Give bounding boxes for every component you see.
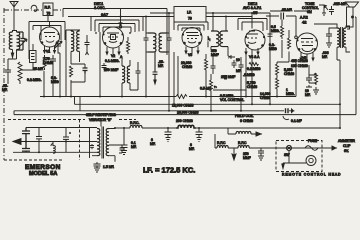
arrow A down: [232, 148, 236, 160]
RFC choke B: [130, 125, 142, 128]
arrow label curve: [283, 116, 289, 120]
svg-text:MF.: MF.: [189, 147, 195, 151]
capacitor filter b: [165, 128, 172, 142]
wire speaker bottom: [347, 27, 350, 29]
antenna coil primary: [9, 32, 12, 50]
svg-text:85: 85: [253, 10, 258, 15]
transformer input taps: [90, 128, 93, 159]
wire grids above V4: [238, 13, 267, 31]
tube V2 internals: [107, 33, 119, 42]
battery lead arrow: [13, 139, 22, 145]
wire field coil: [228, 133, 255, 135]
tube V5 pins: [301, 53, 313, 62]
wire speaker right: [355, 17, 356, 95]
wire OT down: [337, 60, 340, 128]
tube V1 pins: [45, 46, 55, 53]
svg-text:EMERSON: EMERSON: [25, 164, 61, 171]
capacitor 250 MMF fil: [258, 148, 264, 160]
wire V3 pin drops: [174, 52, 178, 104]
switch SW: [286, 145, 291, 150]
wire right bus vertical: [345, 95, 356, 115]
IF transformer 2 left winding: [211, 31, 219, 47]
bias box resistor: [30, 51, 37, 63]
hash choke coil: [51, 142, 55, 154]
speaker body: [347, 7, 354, 27]
wire power row2 y141.5: [13, 141, 92, 143]
wire osc coil leads: [122, 56, 138, 96]
svg-text:6 OHMS: 6 OHMS: [240, 119, 254, 123]
capacitor 0.5-MF coupling: [232, 60, 237, 68]
wire bus y11 right: [270, 10, 307, 12]
svg-text:MF.: MF.: [150, 142, 156, 146]
tube V1 internals: [44, 33, 55, 43]
tube electrode dots: [39, 33, 317, 51]
wire RF box lead: [48, 16, 50, 28]
svg-text:I.F. = 172.5 KC.: I.F. = 172.5 KC.: [143, 166, 195, 175]
capacitor .25-MF: [153, 52, 158, 80]
resistor divider 5,350 + 1 MEG chain: [276, 62, 279, 97]
tube V3 pin arrows: [185, 51, 199, 54]
arrow remote down: [282, 164, 284, 169]
svg-text:& OSC.: & OSC.: [94, 6, 106, 10]
wire filament line y148: [215, 147, 331, 149]
resistor divider 435 OHMS: [277, 30, 291, 62]
svg-text:0.1-MEG.: 0.1-MEG.: [105, 59, 120, 63]
svg-text:250 MMF: 250 MMF: [221, 75, 235, 79]
svg-text:REMOTE CONTROL HEAD: REMOTE CONTROL HEAD: [282, 173, 341, 177]
tube V2 grid cap lead: [120, 9, 122, 23]
wire bus y17: [68, 16, 252, 18]
svg-text:MEG: MEG: [269, 47, 277, 51]
svg-text:0.2-MEG: 0.2-MEG: [247, 67, 261, 71]
wire coupling y16: [266, 15, 296, 17]
svg-text:1.5 MF.: 1.5 MF.: [103, 165, 114, 169]
wire bus y96: [40, 96, 296, 98]
svg-text:6M: 6M: [307, 10, 312, 14]
capacitor .015 MF: [329, 6, 334, 15]
border bottom dashed: [4, 159, 62, 161]
switch SW cross: [287, 146, 291, 150]
wire grid rects above V2: [91, 17, 143, 28]
capacitor filter c: [196, 128, 203, 142]
RF label box: [43, 3, 53, 16]
label I.F. box: [174, 7, 206, 23]
tube V4 pins: [246, 48, 258, 55]
resistor 0.5-MEG grid: [281, 20, 284, 59]
trimmer cap antenna: [17, 32, 26, 50]
svg-text:V5: V5: [302, 56, 306, 60]
capacitor IFT2 primary: [208, 36, 210, 47]
ground .006: [326, 40, 332, 47]
wire B+ line y128: [142, 127, 340, 129]
svg-text:AMMETER: AMMETER: [338, 139, 356, 143]
capacitor vibrator buffer: [119, 145, 125, 153]
arrow field coil: [255, 132, 262, 136]
resistor V2 screen: [127, 37, 130, 54]
svg-text:MMF: MMF: [243, 156, 251, 160]
V5 cathode bias resistor: [315, 73, 318, 84]
capacitor osc grid: [85, 40, 90, 47]
oscillator coil right: [127, 66, 130, 83]
svg-text:V1: V1: [46, 50, 50, 54]
tube V3 IF 78: [182, 28, 202, 48]
resistor 20,000 OHMS: [205, 54, 208, 96]
IF transformer 2 right winding: [220, 31, 228, 47]
tube V2 pins: [107, 47, 119, 55]
capacitor bank 1 lower: [22, 142, 30, 153]
IF transformer 1 right winding: [159, 33, 167, 52]
svg-text:I.F.: I.F.: [187, 11, 192, 15]
wire IFT2 leads: [211, 13, 228, 56]
svg-text:78: 78: [47, 12, 51, 16]
capacitor 0.1-MF series: [286, 108, 289, 113]
antenna coil secondary: [17, 32, 20, 50]
ground bias: [313, 87, 319, 94]
V5 grid cap: [295, 36, 298, 39]
svg-text:MF.: MF.: [158, 64, 164, 68]
svg-text:0.5-MF.: 0.5-MF.: [200, 87, 211, 91]
vibrator transformer left winding: [97, 129, 100, 156]
wire V1 grid rect inner: [33, 26, 61, 41]
wire outer grid box: [63, 9, 167, 56]
variable capacitor tuning: [54, 40, 62, 50]
border left dash-dot: [3, 8, 5, 160]
tone control pot: [319, 5, 328, 15]
wire vertical x66: [66, 30, 80, 97]
svg-text:OHMS: OHMS: [43, 61, 54, 65]
antenna: [10, 2, 18, 31]
svg-text:R.F.: R.F.: [45, 6, 51, 10]
tube V5 42: [297, 33, 318, 54]
arrow 0.1-MF out: [289, 109, 294, 113]
resistor osc grid leak: [70, 66, 73, 97]
wire V5 grid lead: [295, 16, 297, 36]
svg-text:R.F.C.: R.F.C.: [130, 121, 139, 125]
resistor 0.2-MEG avc: [249, 63, 259, 66]
svg-text:V2: V2: [111, 54, 115, 58]
wire AF line y90: [213, 90, 246, 97]
V5 cathode bias cap: [306, 75, 312, 83]
capacitor .05-MF: [5, 66, 11, 84]
svg-text:FUSE: FUSE: [308, 139, 318, 143]
capacitor 10 MF left: [239, 62, 244, 71]
svg-text:MMF: MMF: [211, 53, 219, 57]
wire power row3 y152.3: [13, 151, 92, 153]
svg-text:R.F.C: R.F.C: [238, 141, 247, 145]
capacitor 250 MMF det: [211, 56, 216, 74]
capacitor filter a: [121, 128, 128, 155]
svg-text:MEG.: MEG.: [271, 29, 280, 33]
svg-text:250 MMF: 250 MMF: [104, 68, 118, 72]
svg-text:.015-: .015-: [333, 2, 341, 6]
wire bus y104.5: [75, 97, 341, 111]
tube V5 pin arrows: [300, 58, 314, 61]
tube V5 internals: [301, 39, 313, 52]
output transformer core: [341, 27, 343, 48]
svg-text:R.F.C: R.F.C: [217, 141, 226, 145]
capacitor 350MMF: [228, 55, 235, 59]
capacitor 25-MF.: [50, 55, 56, 68]
IFT1 trimmer cap left: [144, 33, 154, 52]
svg-text:6V.: 6V.: [344, 149, 349, 153]
tube V3 pins: [186, 47, 198, 55]
wire osc parallel: [71, 64, 85, 82]
speaker dot: [351, 16, 354, 19]
wire top bus y13: [150, 12, 270, 14]
wire SW to dial: [283, 151, 306, 164]
vibrator transformer right winding: [106, 129, 109, 156]
wire field drop: [227, 128, 229, 134]
svg-text:MF.: MF.: [305, 93, 311, 97]
svg-text:MF.: MF.: [131, 145, 137, 149]
capacitor .006 MF: [326, 28, 337, 40]
border top dash-dot: [4, 9, 62, 11]
wire coil tops: [13, 31, 17, 33]
fuse: [305, 146, 318, 151]
capacitor column 3: [63, 128, 71, 153]
tube V2 6A7: [103, 27, 124, 48]
svg-text:200 OHMS: 200 OHMS: [176, 119, 194, 123]
RFC choke fil 1: [217, 146, 228, 148]
volume control 0.5 MEG: [210, 74, 218, 111]
wire grid rects above V3: [174, 22, 208, 31]
svg-text:10: 10: [236, 58, 240, 62]
wire B+ from transformer: [115, 127, 130, 129]
svg-text:OHMS: OHMS: [260, 96, 271, 100]
wire coupling coil leads: [71, 30, 80, 64]
wire cathode drops: [44, 68, 53, 97]
dial outer: [306, 156, 316, 166]
tube V4 pin arrows: [245, 52, 259, 55]
wire grid rect verticals: [91, 17, 143, 97]
svg-text:V4 & A: V4 & A: [249, 55, 260, 59]
tube V3 internals: [186, 33, 199, 43]
svg-text:OHMS: OHMS: [182, 65, 193, 69]
svg-text:78: 78: [188, 17, 192, 21]
capacitor transformer side: [90, 144, 94, 149]
remote control dashed box: [276, 141, 322, 172]
svg-text:.05-MF.: .05-MF.: [281, 8, 292, 12]
svg-text:VIBRATOR “B”: VIBRATOR “B”: [89, 118, 111, 122]
wire divider verticals: [270, 13, 296, 104]
arrow coil ground: [11, 53, 13, 58]
tube V2 pin arrows: [106, 52, 120, 55]
svg-text:135 OHMS: 135 OHMS: [291, 64, 309, 68]
arrow .25-MF ground: [154, 80, 156, 84]
capacitor 250 MMF osc: [102, 63, 107, 70]
svg-text:.1-MEG: .1-MEG: [243, 73, 255, 77]
arrow ammeter clip: [331, 146, 337, 150]
svg-text:MF.: MF.: [2, 88, 8, 92]
RF coupling coil left: [71, 31, 74, 51]
wire filament drop: [214, 134, 216, 148]
capacitor .05-MF coupling: [281, 13, 284, 20]
RF coupling coil right: [77, 31, 80, 51]
capacitor bank 1 upper: [22, 128, 30, 142]
capacitor AVC filter: [268, 34, 273, 36]
svg-text:MODEL 5A: MODEL 5A: [29, 171, 57, 177]
dashed divider vibrator box: [79, 120, 81, 161]
wire IFT1 leads: [146, 13, 169, 111]
svg-text:MEG.: MEG.: [286, 92, 295, 96]
svg-text:V3: V3: [188, 53, 192, 57]
svg-text:25-MF.: 25-MF.: [33, 67, 43, 71]
tube V4 85: [245, 30, 265, 50]
vibrator transformer core: [102, 127, 104, 159]
trimmer arrow: [19, 39, 27, 47]
wire bus y114.5: [14, 111, 345, 115]
wire transformer secondary leads: [115, 128, 119, 162]
svg-text:0.2-MEG.: 0.2-MEG.: [27, 78, 42, 82]
dial inner: [309, 158, 313, 162]
tube V1 RF 78: [40, 27, 60, 47]
svg-text:MF.: MF.: [322, 55, 328, 59]
arrow grid cap: [119, 23, 122, 26]
IFT1 trimmer cap right: [162, 33, 172, 52]
capacitor osc grid 2: [83, 68, 88, 74]
wire power row1 y127.5: [26, 127, 92, 129]
tube V4 internals: [246, 31, 258, 43]
svg-text:CLIP: CLIP: [343, 144, 351, 148]
svg-text:MEG: MEG: [51, 80, 59, 84]
resistor 0.2-MEG left: [18, 62, 22, 84]
speaker horn: [346, 2, 359, 7]
capacitor osc pad: [136, 62, 141, 90]
svg-text:0.1-MF: 0.1-MF: [291, 119, 302, 123]
resistor 200 OHMS wirewound: [176, 125, 196, 128]
svg-text:42: 42: [302, 20, 307, 25]
wire transformer taps: [92, 128, 115, 156]
capacitor 250MMF mark: [224, 75, 227, 80]
wire output transformer leads: [314, 24, 350, 60]
tube V2 grid cap: [119, 26, 122, 29]
svg-text:OHMS: OHMS: [284, 72, 295, 76]
svg-text:A: A: [120, 55, 123, 59]
IF transformer 1 left winding: [148, 33, 156, 52]
field coil: [236, 131, 251, 134]
output transformer left winding: [337, 28, 340, 47]
resistor 12,000 OHMS: [176, 95, 187, 99]
output transformer right winding: [343, 28, 346, 47]
capacitor 1.5 MF: [94, 162, 101, 172]
bias box bars: [20, 44, 35, 70]
capacitor column 2 dot: [38, 141, 40, 143]
capacitor column 2: [36, 128, 42, 153]
RFC choke fil 2: [238, 146, 249, 148]
wire bias network: [306, 65, 316, 87]
wire cap lead: [86, 35, 89, 55]
vibrator unit dashed border: [8, 119, 136, 121]
tube V1 pin arrows: [44, 51, 56, 54]
wire coil bottoms: [8, 50, 17, 67]
wire v4 verticals: [241, 52, 252, 111]
wire vertical x60: [58, 50, 60, 97]
wire transformer center tap up: [100, 120, 102, 127]
wave trap curl: [31, 5, 37, 11]
svg-text:SELF RECTIFYING: SELF RECTIFYING: [86, 113, 116, 117]
wire bus y109.5: [14, 110, 284, 112]
wire V1 grid rect outer: [29, 22, 65, 60]
cathode resistor .175 OHMS: [43, 55, 46, 70]
oscillator coil left: [122, 66, 125, 83]
svg-text:FIELD COIL: FIELD COIL: [235, 114, 254, 118]
